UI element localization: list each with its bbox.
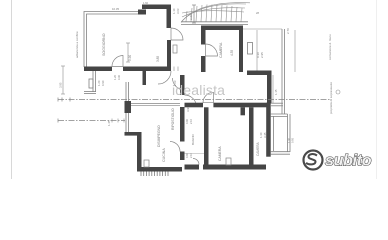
svg-text:SOGGIORNO: SOGGIORNO <box>102 33 106 56</box>
svg-text:2.70: 2.70 <box>286 28 290 34</box>
ingresso wall ticks <box>174 67 178 72</box>
svg-text:5.90: 5.90 <box>128 55 132 61</box>
svg-text:CAMERA: CAMERA <box>218 146 222 161</box>
left small dim line <box>61 66 65 94</box>
svg-text:1.15: 1.15 <box>274 89 278 95</box>
svg-text:2.10: 2.10 <box>189 118 193 124</box>
radiator right of camera <box>248 43 253 55</box>
svg-text:proprietà di soprassuolo: proprietà di soprassuolo <box>329 82 333 114</box>
svg-text:3.30: 3.30 <box>117 74 121 80</box>
svg-text:3.63: 3.63 <box>176 8 180 14</box>
door arc soggiorno right wall <box>171 28 183 40</box>
svg-text:DISIMPEGNO: DISIMPEGNO <box>157 125 161 147</box>
ingresso door arcs <box>158 71 171 84</box>
svg-text:1.20: 1.20 <box>113 74 117 80</box>
svg-text:comunione d. muro: comunione d. muro <box>328 34 332 60</box>
svg-text:CUCINA: CUCINA <box>162 148 166 162</box>
svg-text:subito: subito <box>325 153 372 170</box>
small door arc at bottom wall gap <box>193 159 199 165</box>
svg-text:CAMERA: CAMERA <box>256 141 260 156</box>
svg-text:2.95: 2.95 <box>260 52 264 58</box>
svg-text:0.95: 0.95 <box>291 137 295 143</box>
left lower balcony <box>84 71 96 94</box>
svg-text:1.45: 1.45 <box>107 120 111 126</box>
svg-text:3.85: 3.85 <box>156 56 160 62</box>
right side connector dbl line + marks <box>271 103 283 106</box>
subito watermark <box>304 151 372 170</box>
small dim line w/ ticks <box>192 5 196 23</box>
svg-text:CAMERA: CAMERA <box>219 42 223 58</box>
bottom wall segments <box>84 67 112 72</box>
svg-text:0.90: 0.90 <box>101 80 105 86</box>
minor thin verticals right side <box>294 30 296 72</box>
svg-text:3.45: 3.45 <box>263 132 267 138</box>
right wall lower part with door gap <box>167 40 171 71</box>
svg-text:4.35: 4.35 <box>230 50 234 56</box>
right outer double-line wall <box>282 29 285 114</box>
bottom walls <box>185 165 200 170</box>
top wall with door gap <box>185 103 204 108</box>
terrace bottom double line <box>181 22 248 25</box>
svg-text:idealista: idealista <box>172 82 225 98</box>
comb hatch under cucina <box>141 172 168 177</box>
svg-text:1.60: 1.60 <box>143 1 149 5</box>
svg-text:3.95: 3.95 <box>59 82 63 88</box>
svg-text:BAGNO: BAGNO <box>191 133 195 145</box>
short wall stub below band <box>143 71 147 85</box>
divider walls <box>204 107 209 165</box>
svg-text:10.35: 10.35 <box>112 7 119 11</box>
small radiator between rooms <box>173 45 177 53</box>
right outer wall <box>266 103 271 157</box>
ripostiglio top double line <box>131 104 180 106</box>
radiator middle bottom room <box>226 158 231 165</box>
svg-text:RIPOSTIGLIO: RIPOSTIGLIO <box>171 108 175 130</box>
faint left edge line <box>11 0 13 179</box>
svg-text:adiacenza a confine: adiacenza a confine <box>75 31 79 58</box>
svg-text:0.90: 0.90 <box>185 118 189 124</box>
thin connector line top right <box>243 28 282 30</box>
thin partition bottom-left room <box>185 153 205 155</box>
